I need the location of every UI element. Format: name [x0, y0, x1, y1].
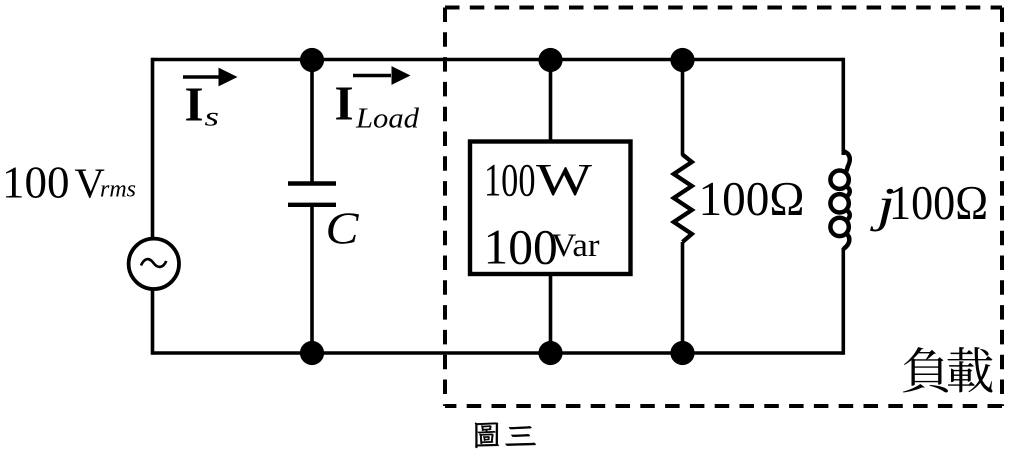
load boundary dashed box: [445, 8, 1002, 407]
wire power-box branch upper: [549, 60, 553, 142]
svg-text:s: s: [205, 102, 220, 132]
label ILoad: [335, 75, 420, 134]
label load (CJK zai): [947, 347, 992, 392]
wire top bus: [153, 58, 844, 62]
wire left vertical upper: [151, 58, 155, 239]
junction node bottom-resistor: [670, 341, 694, 365]
svg-text:I: I: [335, 75, 354, 130]
AC source sine symbol: [141, 259, 166, 267]
junction node top-box: [538, 48, 562, 72]
wire capacitor branch upper: [310, 60, 314, 183]
svg-text:C: C: [326, 203, 360, 253]
dashed box bottom edge: [445, 404, 1002, 408]
inductor L1 coil: [830, 151, 849, 249]
wire power-box branch lower: [549, 274, 553, 355]
junction node bottom-capacitor: [300, 341, 324, 365]
svg-text:W: W: [536, 155, 593, 205]
svg-text:100Ω: 100Ω: [889, 177, 988, 230]
svg-text:100Ω: 100Ω: [699, 173, 805, 226]
wire inductor branch lower: [841, 248, 845, 355]
label Is: [185, 77, 220, 132]
junction node top-capacitor: [300, 48, 324, 72]
wire inductor branch upper: [841, 58, 845, 155]
AC source V1: [129, 239, 179, 289]
wire resistor branch upper: [681, 60, 685, 156]
svg-text:Load: Load: [355, 104, 420, 135]
resistor R1 zigzag: [674, 155, 692, 243]
current arrow ILoad: [353, 66, 411, 85]
label 100Var: [484, 219, 600, 274]
dashed box left edge: [443, 8, 447, 407]
wire bottom bus: [153, 351, 844, 355]
svg-text:rms: rms: [100, 177, 136, 203]
junction node top-resistor: [670, 48, 694, 72]
label 100W: [484, 155, 593, 207]
label load (CJK fu): [903, 347, 948, 392]
svg-text:Var: Var: [551, 228, 600, 264]
wire left vertical lower: [151, 289, 155, 355]
label 100 Vrms: [2, 158, 136, 208]
capacitor C plates: [288, 184, 336, 205]
dashed box right edge: [1000, 8, 1004, 407]
caption figure-3 (CJK san): [506, 426, 536, 445]
dashed box top edge: [445, 6, 1002, 10]
power box 100W 100Var: [470, 142, 631, 275]
wire resistor branch lower: [681, 242, 685, 355]
wire capacitor branch lower: [310, 205, 314, 355]
caption figure-3 (CJK tu): [475, 423, 499, 448]
junction node bottom-box: [538, 341, 562, 365]
label j100ohm: [869, 177, 988, 232]
current arrow Is: [183, 68, 238, 87]
svg-text:100: 100: [484, 155, 536, 207]
svg-text:100: 100: [484, 219, 558, 274]
svg-text:100: 100: [2, 158, 70, 208]
svg-text:I: I: [185, 77, 204, 132]
